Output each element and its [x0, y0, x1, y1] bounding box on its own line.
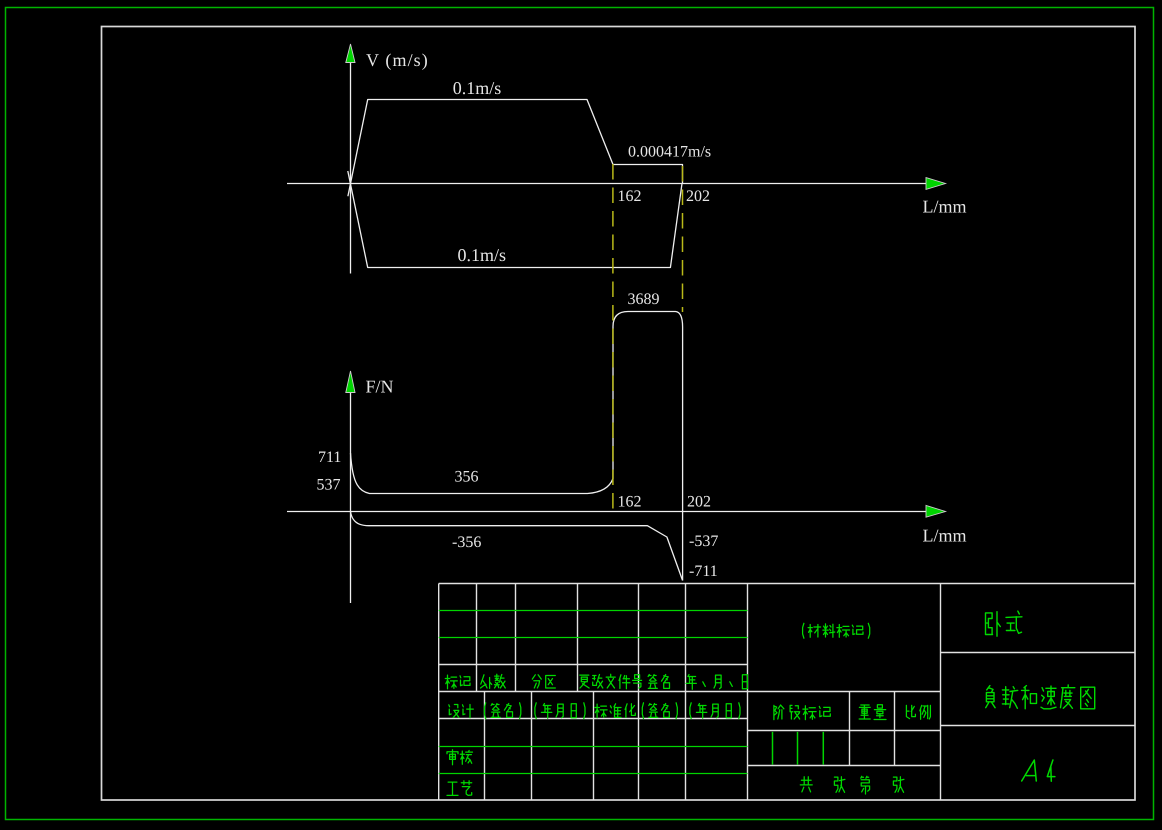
svg-text:711: 711 — [318, 449, 341, 466]
wire: top graph Y axis — [350, 62, 352, 274]
label 分区 — [532, 675, 555, 688]
node: top Y axis green arrow — [346, 44, 355, 63]
label (签名) row5b — [642, 703, 677, 719]
wire: velocity curve lower trapezoid — [348, 171, 682, 268]
label 张1 — [834, 777, 845, 793]
svg-text:162: 162 — [618, 494, 642, 511]
svg-text:202: 202 — [687, 494, 711, 511]
node: top X axis green arrow — [926, 178, 946, 190]
svg-text:202: 202 — [686, 188, 710, 205]
label 标记 — [445, 675, 470, 689]
title block white grid lines — [439, 584, 1135, 801]
label 比例 — [906, 705, 930, 719]
svg-text:3689: 3689 — [628, 291, 660, 308]
label 年、月、日 — [686, 675, 747, 690]
title block green row lines — [439, 611, 748, 774]
label 张2 — [893, 777, 904, 793]
node: bottom Y axis green arrow — [346, 371, 355, 393]
label 审核 — [447, 750, 473, 765]
label 共 张 第 张 — [800, 777, 812, 792]
wire: yellow dashed line at L=202 — [682, 166, 684, 312]
label 卧式 — [986, 611, 1022, 636]
svg-text:-356: -356 — [452, 534, 481, 551]
label 签名 — [648, 675, 669, 689]
label 阶段标记 — [774, 705, 830, 720]
wire: bottom graph Y axis — [350, 393, 352, 604]
label 更改文件号 — [580, 674, 642, 689]
svg-text:0.000417m/s: 0.000417m/s — [628, 144, 711, 161]
wire: force curve negative (-356 to -711) — [351, 512, 683, 581]
label 第 — [861, 776, 870, 794]
svg-text:-711: -711 — [689, 563, 718, 580]
label 标准化 — [595, 704, 636, 718]
svg-text:0.1m/s: 0.1m/s — [453, 78, 502, 98]
label 设计 — [449, 705, 474, 718]
wire: top graph X axis — [287, 183, 926, 185]
wire: force curve positive (356 plateau and 3689 pulse) — [351, 312, 683, 581]
svg-text:-537: -537 — [689, 533, 718, 550]
svg-text:F/N: F/N — [366, 377, 394, 397]
label A4 — [1022, 760, 1055, 781]
svg-text:L/mm: L/mm — [923, 196, 967, 216]
label (签名) row5a — [484, 703, 520, 719]
svg-text:356: 356 — [455, 469, 479, 486]
svg-text:0.1m/s: 0.1m/s — [458, 245, 507, 265]
svg-text:537: 537 — [317, 477, 341, 494]
title block green signature ticks — [773, 732, 824, 765]
wire: yellow dashed line at L=162 — [612, 164, 614, 511]
svg-text:162: 162 — [618, 188, 642, 205]
wire: bottom graph X axis — [287, 511, 926, 513]
label (材料标记) — [803, 623, 870, 638]
label 工艺 — [447, 781, 472, 796]
wire: velocity curve upper trapezoid — [348, 100, 683, 197]
svg-text:V (m/s): V (m/s) — [366, 50, 429, 70]
label (年月日) row5b — [690, 703, 740, 719]
label 处数 — [481, 674, 506, 688]
svg-text:L/mm: L/mm — [923, 526, 967, 546]
node: bottom X axis green arrow — [926, 505, 946, 517]
label 重量 — [859, 705, 886, 720]
label 负载和速度图 — [986, 685, 1095, 709]
label (年月日) row5a — [535, 703, 585, 719]
